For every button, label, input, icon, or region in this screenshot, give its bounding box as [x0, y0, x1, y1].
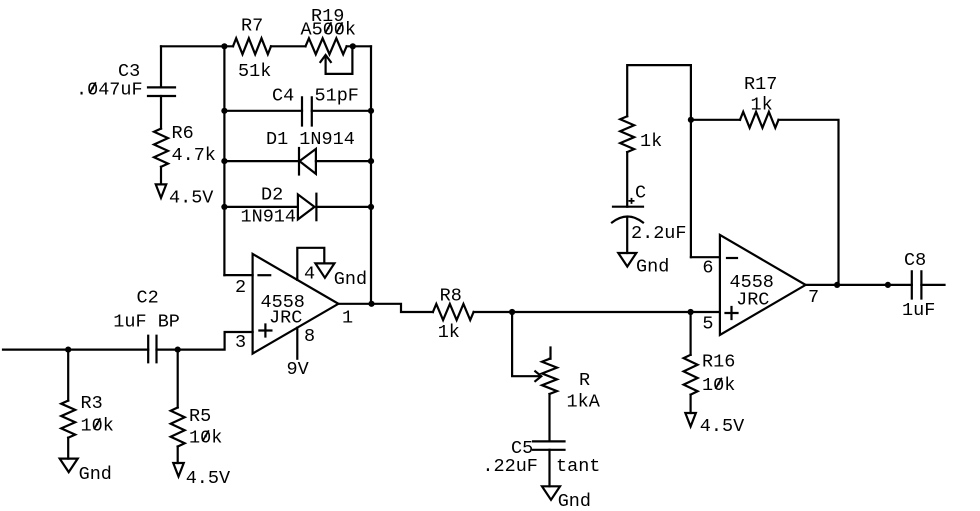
capacitor C plus sign	[629, 198, 635, 204]
node D2 left	[221, 204, 227, 210]
node bias R17 junction	[688, 117, 694, 123]
wire R16 to supply	[689, 395, 691, 413]
op-amp U2 triangle	[720, 235, 806, 335]
wire C4 left	[224, 110, 302, 112]
svg-text:4.5V: 4.5V	[186, 468, 230, 489]
diode D1 cathode bar	[298, 148, 300, 175]
node output C8 junction	[885, 282, 891, 288]
svg-text:2.2uF: 2.2uF	[631, 223, 687, 244]
svg-text:C8: C8	[904, 250, 926, 271]
svg-text:1N914: 1N914	[241, 207, 297, 228]
node C2 out	[175, 347, 181, 353]
diode D1 triangle	[300, 149, 316, 174]
capacitor C2 body	[148, 336, 156, 363]
wire R8 to pin5	[474, 311, 720, 313]
potentiometer R19 body	[306, 38, 347, 54]
U1 minus	[259, 274, 271, 276]
wire C4 right	[312, 110, 371, 112]
svg-text:R7: R7	[241, 16, 263, 37]
node output right-bus	[368, 301, 374, 307]
svg-text:1uF: 1uF	[902, 300, 935, 321]
power 4.5V arrow R6	[156, 184, 167, 198]
R19 wiper arrowhead	[320, 55, 330, 62]
svg-text:6: 6	[702, 257, 713, 278]
node D1 left	[221, 158, 227, 164]
node input R3	[65, 347, 71, 353]
svg-text:Gnd: Gnd	[79, 464, 112, 485]
svg-text:51pF: 51pF	[315, 86, 359, 107]
node D2 right	[368, 204, 374, 210]
ground symbol C5	[542, 486, 560, 500]
node D1 right	[368, 158, 374, 164]
svg-text:1: 1	[342, 308, 353, 329]
svg-text:tant: tant	[556, 456, 600, 477]
svg-text:10k: 10k	[702, 375, 735, 396]
svg-text:R16: R16	[702, 352, 735, 373]
svg-text:D2: D2	[261, 185, 283, 206]
resistor R17	[740, 112, 779, 128]
power 4.5V arrow R5	[173, 463, 184, 477]
potentiometer R body	[542, 359, 557, 394]
wire C3 top lead	[160, 46, 162, 87]
node R8 out	[509, 309, 515, 315]
svg-text:4.7k: 4.7k	[172, 145, 216, 166]
svg-text:.22uF: .22uF	[482, 456, 538, 477]
node top-left junction	[221, 43, 227, 49]
wire top rail node A	[161, 45, 233, 47]
wire C to ground	[626, 217, 628, 253]
node output R17 junction	[834, 282, 840, 288]
node C4 right	[368, 108, 374, 114]
wire U1 output	[338, 304, 433, 312]
wire 1k to cap C	[626, 152, 628, 207]
svg-text:C: C	[635, 183, 646, 204]
wire R5 top lead	[177, 350, 179, 408]
wire R16 top lead	[689, 312, 691, 355]
wire pin4 to ground	[297, 248, 324, 280]
svg-text:1k: 1k	[751, 94, 773, 115]
wire to pot wiper	[512, 312, 539, 376]
svg-text:.047uF: .047uF	[76, 80, 143, 101]
svg-text:R: R	[579, 370, 590, 391]
wire C3 bottom lead	[160, 96, 162, 129]
wire pin2 lead	[224, 274, 252, 276]
wire pot to C5	[548, 394, 550, 441]
svg-text:Gnd: Gnd	[636, 257, 669, 278]
svg-text:R3: R3	[81, 393, 103, 414]
wire pin6 lead	[691, 256, 720, 258]
wire R6 to supply	[160, 167, 162, 185]
wire D2 right	[316, 206, 371, 208]
pot wiper arrowhead	[535, 371, 541, 381]
resistor R3	[61, 401, 75, 438]
svg-text:7: 7	[808, 287, 819, 308]
capacitor C5 body	[533, 441, 565, 449]
svg-text:4.5V: 4.5V	[700, 416, 744, 437]
svg-text:4.5V: 4.5V	[169, 188, 213, 209]
svg-text:1k: 1k	[640, 131, 662, 152]
wire R7 to R19	[271, 45, 306, 47]
node R19 right junction	[350, 43, 356, 49]
wire pot top stub	[550, 348, 551, 359]
svg-text:2: 2	[235, 277, 246, 298]
resistor R7	[233, 38, 271, 54]
svg-text:C4: C4	[272, 86, 294, 107]
resistor 1k bias	[620, 116, 634, 152]
capacitor C3 body	[148, 87, 175, 96]
svg-text:JRC: JRC	[269, 308, 302, 329]
node C4 left	[221, 108, 227, 114]
wire D1 right	[316, 160, 371, 162]
capacitor C8 body	[912, 271, 922, 298]
ground symbol C	[618, 253, 636, 267]
svg-text:C2: C2	[137, 287, 159, 308]
capacitor C curved plate	[612, 217, 643, 223]
capacitor C top plate	[613, 206, 643, 208]
resistor R6	[154, 129, 168, 167]
wire C2 to pin3	[157, 332, 253, 350]
wire R17 left lead	[691, 119, 740, 121]
svg-text:3: 3	[235, 332, 246, 353]
svg-text:10k: 10k	[189, 428, 222, 449]
wire U2 output	[806, 284, 912, 286]
wire pin8 supply stub	[296, 328, 298, 359]
wire R3 to ground	[67, 438, 69, 459]
op-amp U1 triangle	[253, 254, 339, 354]
svg-text:8: 8	[304, 326, 315, 347]
wire R19 right terminal	[347, 45, 371, 47]
wire R5 to supply	[177, 447, 179, 464]
resistor R16	[684, 355, 698, 395]
svg-text:R17: R17	[744, 74, 777, 95]
ground symbol pin4	[315, 263, 334, 277]
capacitor C4 body	[302, 97, 312, 125]
svg-text:R8: R8	[440, 285, 462, 306]
wire R19 wiper loop	[326, 46, 353, 74]
svg-text:JRC: JRC	[736, 290, 769, 311]
svg-text:D1 1N914: D1 1N914	[266, 129, 355, 150]
svg-text:R5: R5	[189, 406, 211, 427]
svg-text:1kA: 1kA	[567, 392, 601, 413]
wire C5 to ground	[548, 450, 550, 487]
svg-text:Gnd: Gnd	[334, 269, 367, 290]
wire R3 top lead	[67, 350, 69, 401]
diode D2 cathode bar	[315, 194, 317, 221]
wire right bus	[370, 46, 372, 304]
power 4.5V arrow R16	[685, 413, 696, 427]
svg-text:R6: R6	[172, 123, 194, 144]
wire output right	[921, 284, 944, 286]
wire input	[3, 349, 148, 351]
resistor R8	[433, 304, 474, 320]
svg-text:1uF BP: 1uF BP	[113, 312, 180, 333]
svg-text:4: 4	[304, 263, 315, 284]
svg-text:9V: 9V	[287, 359, 309, 380]
U2 plus	[726, 307, 738, 319]
wire bias top loop	[627, 65, 691, 257]
wire left bus	[223, 46, 225, 275]
wire D2 left	[224, 206, 298, 208]
ground symbol R3	[60, 459, 78, 473]
wire R17 to output	[779, 120, 839, 285]
svg-text:10k: 10k	[81, 416, 114, 437]
svg-text:51k: 51k	[238, 61, 271, 82]
U1 plus	[259, 325, 271, 337]
wire D1 left	[224, 160, 299, 162]
svg-text:5: 5	[702, 313, 713, 334]
svg-text:Gnd: Gnd	[558, 491, 591, 511]
resistor R5	[171, 408, 185, 447]
svg-text:A500k: A500k	[301, 20, 357, 41]
U2 minus	[727, 257, 737, 259]
svg-text:1k: 1k	[438, 322, 460, 343]
node pin5 R16	[688, 309, 694, 315]
diode D2 triangle	[298, 194, 315, 219]
